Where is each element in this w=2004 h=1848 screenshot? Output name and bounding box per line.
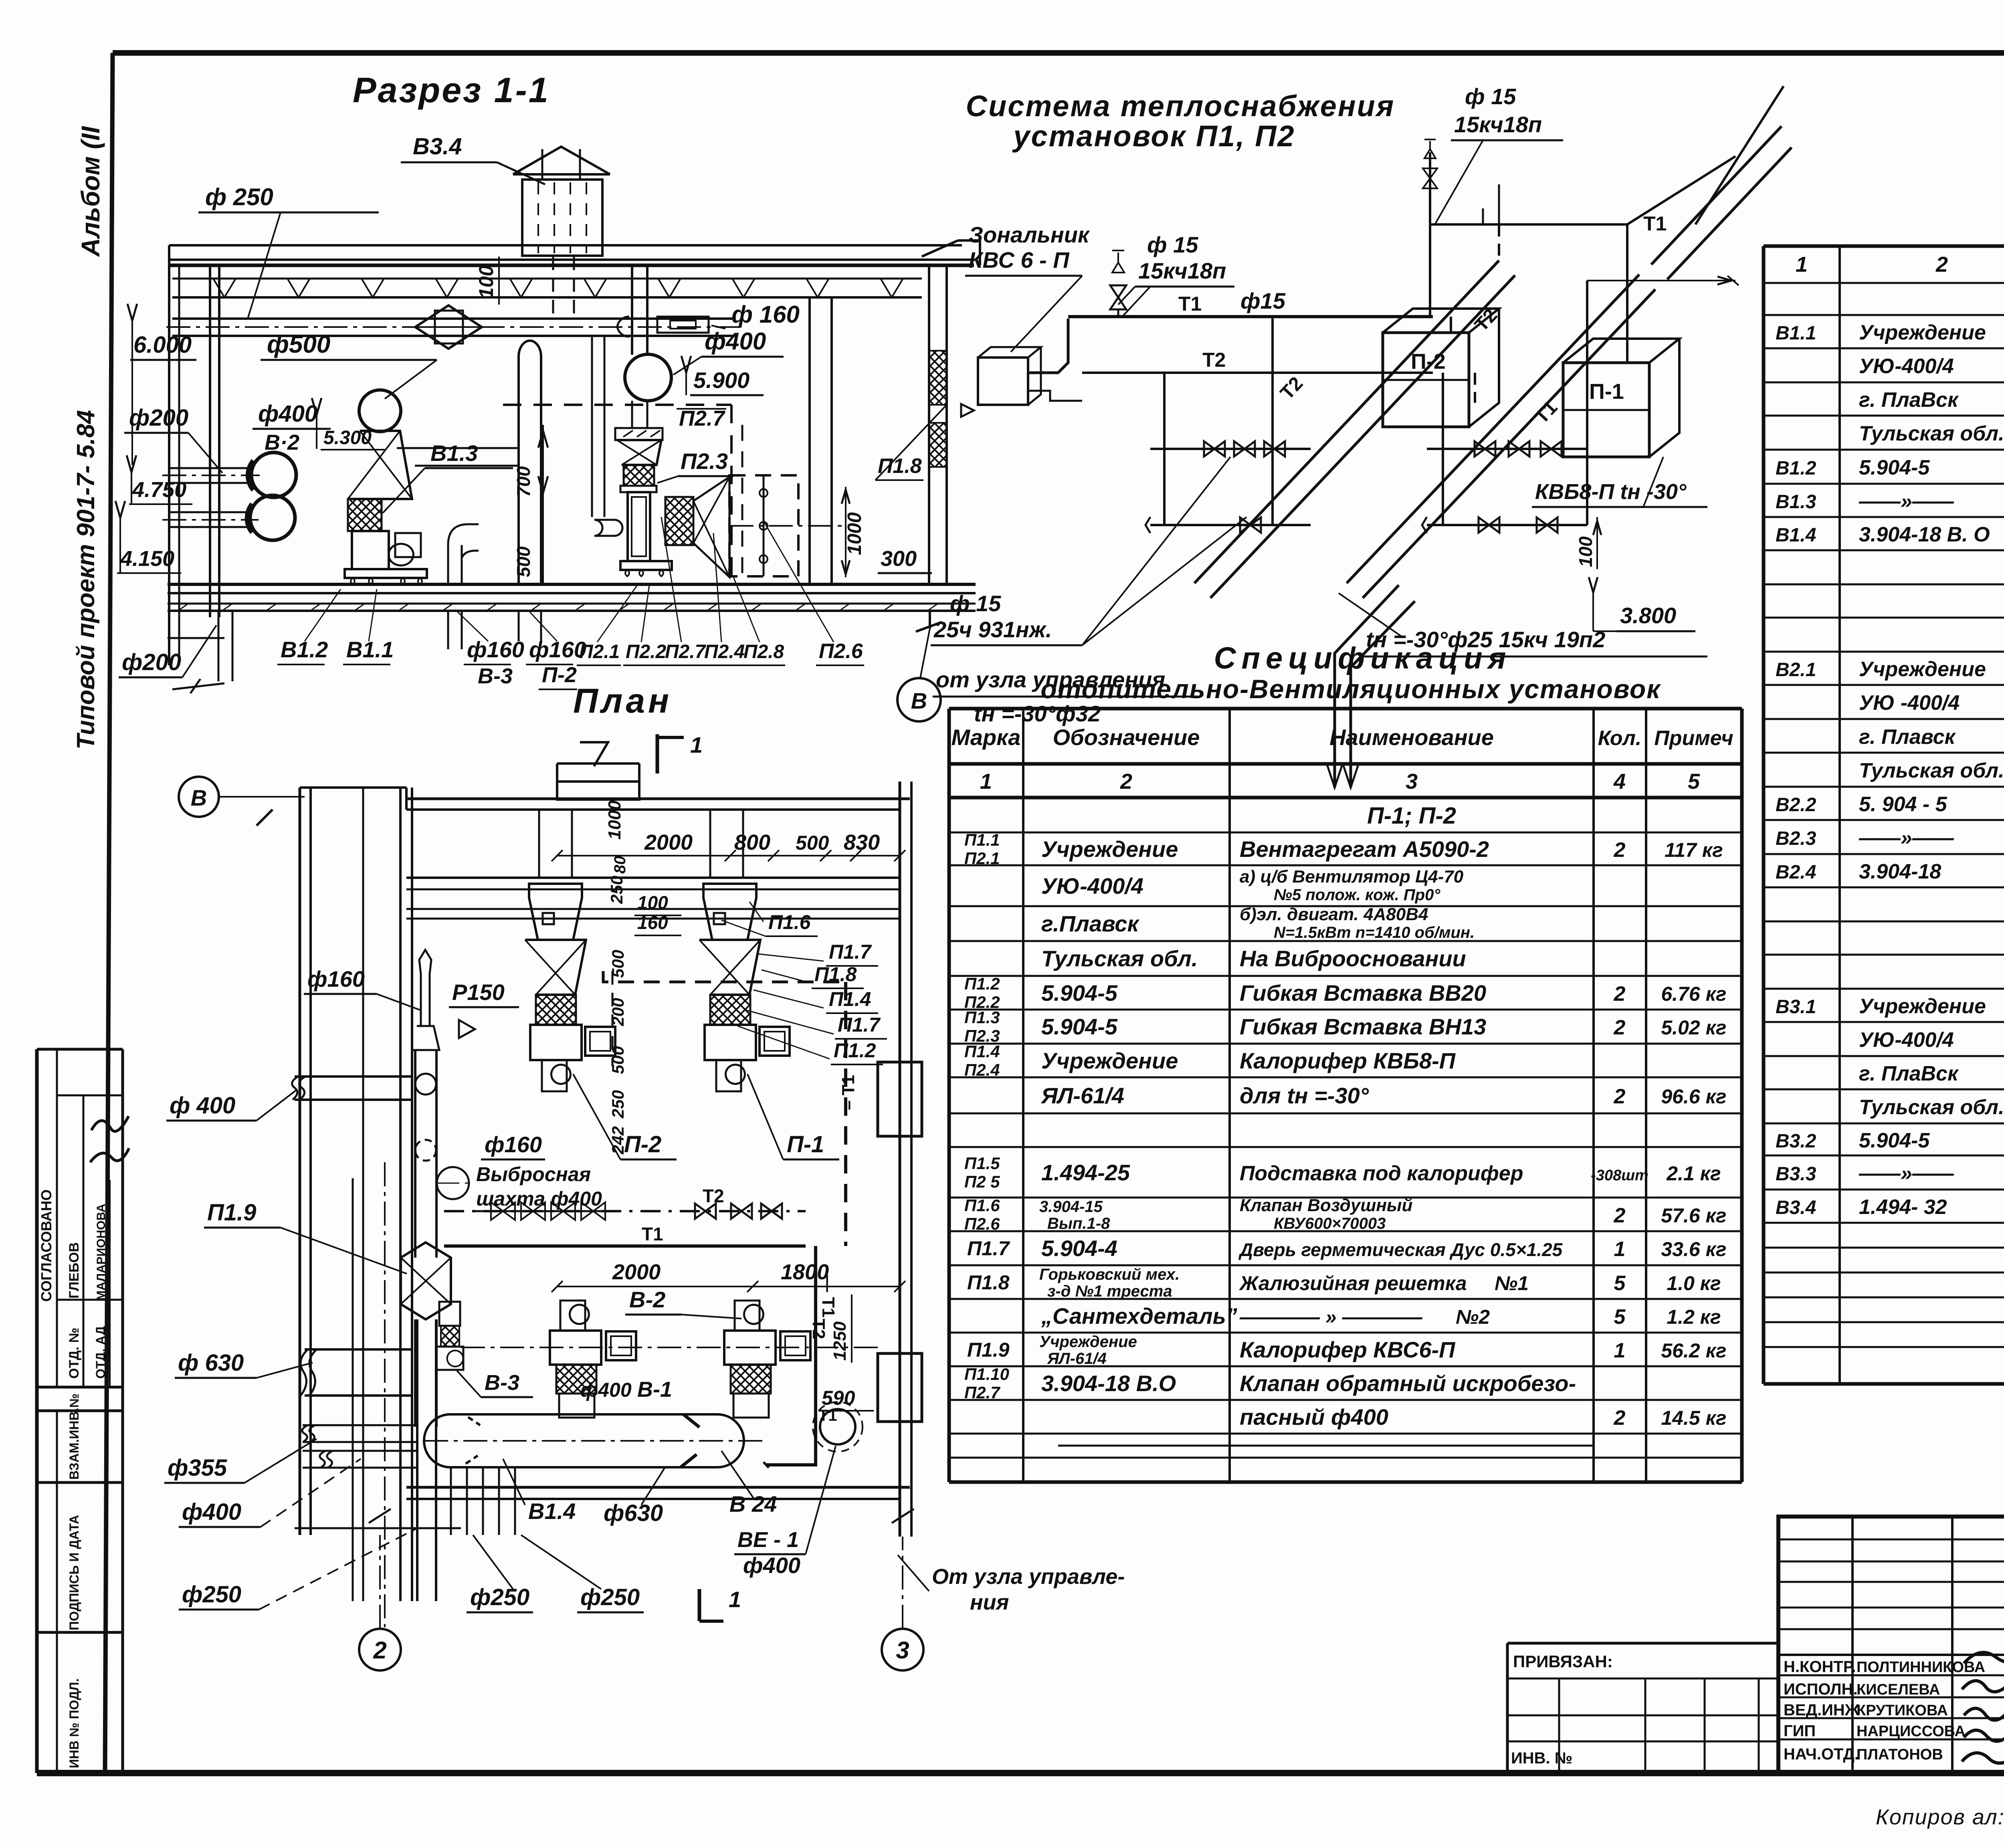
svg-text:1: 1	[690, 732, 703, 757]
svg-text:В3.4: В3.4	[413, 133, 462, 160]
svg-text:Тульская обл.: Тульская обл.	[1859, 759, 2004, 782]
svg-text:В: В	[191, 785, 207, 810]
svg-text:П1.3: П1.3	[964, 1008, 1000, 1027]
svg-text:5.904-5: 5.904-5	[1859, 456, 1930, 479]
svg-text:П2.1: П2.1	[964, 849, 1000, 868]
svg-text:П2.4: П2.4	[964, 1060, 1000, 1079]
svg-text:Горьковский мех.: Горьковский мех.	[1039, 1266, 1180, 1283]
roof slab lines	[169, 240, 980, 297]
svg-text:500: 500	[608, 1046, 627, 1074]
svg-text:300: 300	[881, 547, 917, 571]
svg-text:Калорифер КВБ8-П: Калорифер КВБ8-П	[1240, 1048, 1456, 1073]
scheme bottom manifold right	[1422, 517, 1587, 533]
svg-text:5: 5	[1614, 1272, 1626, 1295]
svg-text:Примеч: Примеч	[1654, 727, 1733, 750]
svg-text:700: 700	[513, 466, 534, 497]
circled axis 3	[882, 1629, 923, 1670]
svg-text:ф400: ф400	[705, 328, 766, 355]
svg-text:ф 160: ф 160	[731, 301, 800, 328]
svg-text:УЮ-400/4: УЮ-400/4	[1859, 1028, 1954, 1052]
svg-text:Тульская обл.: Тульская обл.	[1859, 422, 2004, 445]
svg-text:В-3: В-3	[485, 1371, 519, 1395]
svg-text:а) ц/б Вентилятор Ц4-70: а) ц/б Вентилятор Ц4-70	[1240, 867, 1464, 887]
label 1000 rotated dim	[845, 487, 846, 577]
svg-text:П-2: П-2	[542, 663, 577, 687]
svg-text:25ч 931нж.: 25ч 931нж.	[933, 617, 1052, 642]
svg-text:Т2: Т2	[809, 1319, 828, 1339]
svg-text:П2.4: П2.4	[704, 641, 745, 662]
svg-text:Т2: Т2	[1202, 349, 1226, 371]
svg-text:В1.2: В1.2	[281, 637, 328, 662]
scheme axis dim line right	[1587, 280, 1735, 281]
svg-text:1: 1	[729, 1587, 741, 1612]
svg-text:от узла управления: от узла управления	[936, 667, 1165, 692]
svg-text:Т1: Т1	[818, 1407, 837, 1424]
central spec table grid	[949, 709, 1742, 1482]
svg-text:500: 500	[513, 546, 534, 577]
svg-text:В1.2: В1.2	[1776, 458, 1816, 479]
svg-text:„Сантехдеталь”: „Сантехдеталь”	[1041, 1303, 1237, 1329]
section cut flag 1 bottom	[698, 1589, 701, 1621]
svg-text:ния: ния	[970, 1590, 1009, 1614]
svg-text:57.6 кг: 57.6 кг	[1661, 1204, 1726, 1227]
svg-text:П1.7: П1.7	[967, 1237, 1010, 1260]
svg-text:КВС 6 - П: КВС 6 - П	[969, 247, 1070, 273]
svg-text:П2.6: П2.6	[819, 640, 863, 663]
Ф200 below floor pipes	[218, 611, 220, 681]
svg-text:з-д №1 треста: з-д №1 треста	[1047, 1282, 1172, 1300]
svg-text:П2.7: П2.7	[964, 1383, 1000, 1402]
svg-text:ф 630: ф 630	[178, 1350, 244, 1376]
scheme riser top pipes	[1483, 184, 1499, 224]
svg-text:Клапан Воздушный: Клапан Воздушный	[1240, 1196, 1413, 1215]
roof shaft opening rect	[557, 782, 639, 800]
svg-text:4.150: 4.150	[120, 547, 174, 571]
svg-text:Учреждение: Учреждение	[1041, 836, 1178, 862]
Ф160 nozzle duct	[617, 317, 725, 337]
svg-text:ф200: ф200	[122, 649, 181, 675]
svg-text:П-1; П-2: П-1; П-2	[1367, 803, 1456, 829]
scheme drop to control node	[1327, 585, 1415, 788]
svg-text:1.2 кг: 1.2 кг	[1667, 1306, 1721, 1328]
svg-text:КРУТИКОВА: КРУТИКОВА	[1857, 1702, 1948, 1719]
flame arrester diamond on duct	[415, 305, 482, 349]
flexible insert В1.3 crosshatch	[348, 499, 382, 531]
svg-text:2: 2	[1935, 252, 1948, 277]
svg-text:П1.8: П1.8	[967, 1271, 1010, 1294]
svg-text:ИСПОЛН.: ИСПОЛН.	[1784, 1680, 1858, 1698]
svg-text:П1.9: П1.9	[967, 1339, 1010, 1361]
lower wall band below floor	[168, 637, 224, 639]
П-2 exhaust riser with cap	[519, 341, 541, 641]
heat pipes T to bottom right	[764, 1246, 838, 1468]
svg-text:П2.1: П2.1	[579, 641, 620, 662]
svg-text:Обозначение: Обозначение	[1053, 725, 1200, 750]
exhaust umbrella В3.4 chimney	[513, 147, 610, 256]
plan top wall	[406, 798, 910, 800]
svg-text:1.0 кг: 1.0 кг	[1667, 1272, 1721, 1295]
svg-text:П1.1: П1.1	[964, 830, 1000, 849]
plan dim row 2000 1800	[557, 1286, 900, 1287]
В-2 fan circles	[251, 452, 296, 497]
svg-text:Марка: Марка	[951, 725, 1021, 750]
vertical duct to chimney	[552, 256, 554, 319]
svg-text:3: 3	[1406, 769, 1418, 794]
svg-text:В2.3: В2.3	[1776, 828, 1816, 849]
svg-text:ЯЛ-61/4: ЯЛ-61/4	[1040, 1083, 1124, 1108]
svg-text:Вентагрегат А5090-2: Вентагрегат А5090-2	[1240, 836, 1489, 862]
svg-text:В1.3: В1.3	[1776, 491, 1816, 513]
svg-text:5.904-4: 5.904-4	[1041, 1236, 1117, 1261]
svg-text:ЯЛ-61/4: ЯЛ-61/4	[1047, 1350, 1107, 1367]
svg-text:ф400: ф400	[182, 1499, 241, 1525]
svg-text:Кол.: Кол.	[1598, 727, 1642, 750]
pipe stubs bottom	[417, 1319, 515, 1601]
plan left wall	[299, 788, 301, 1535]
svg-text:В3.1: В3.1	[1776, 996, 1816, 1018]
svg-text:ПОДПИСЬ И ДАТА: ПОДПИСЬ И ДАТА	[67, 1515, 81, 1630]
cone below Ф500 circle	[348, 431, 412, 499]
svg-text:ф15: ф15	[1240, 288, 1286, 313]
diamond П1.9 heater in shaft	[401, 1242, 451, 1427]
svg-text:КИСЕЛЕВА: КИСЕЛЕВА	[1857, 1681, 1940, 1698]
svg-text:ф630: ф630	[604, 1500, 663, 1526]
zonal heater box	[978, 347, 1041, 405]
svg-text:Учреждение: Учреждение	[1041, 1048, 1178, 1073]
svg-text:Тульская обл.: Тульская обл.	[1859, 1096, 2004, 1119]
air valve П2.6 box	[729, 475, 844, 576]
privyazan box	[1507, 1643, 1778, 1773]
П2 fan Ф400 circle	[625, 354, 671, 401]
svg-text:П2.7: П2.7	[679, 406, 726, 430]
П-2 isometric box	[1383, 309, 1499, 427]
svg-text:ГЛЕБОВ: ГЛЕБОВ	[67, 1242, 82, 1299]
svg-text:250: 250	[608, 1090, 627, 1119]
left horizontal pipes Ф355 Ф400	[302, 1425, 417, 1468]
diffuser cone to П2.6 box	[693, 477, 729, 577]
svg-text:3.904-18: 3.904-18	[1859, 860, 1941, 883]
plan rotated dim column	[605, 800, 681, 1155]
cone and X brace П2 train	[617, 440, 661, 465]
drawing border frame	[113, 50, 2004, 56]
svg-text:П1.4: П1.4	[964, 1042, 1000, 1061]
svg-text:5.02 кг: 5.02 кг	[1661, 1016, 1726, 1039]
svg-text:П1.8: П1.8	[814, 963, 857, 986]
fan unit В1.1 body	[345, 531, 427, 584]
dashed duct П2.8 drop	[730, 405, 733, 577]
fan unit П2.1 body	[594, 486, 672, 576]
svg-text:6.000: 6.000	[133, 332, 192, 358]
svg-text:П1.9: П1.9	[207, 1200, 256, 1226]
svg-text:2: 2	[1614, 1204, 1626, 1227]
svg-text:5.900: 5.900	[693, 368, 749, 393]
svg-text:5.904-5: 5.904-5	[1859, 1129, 1930, 1152]
svg-text:П2.8: П2.8	[743, 641, 784, 662]
svg-text:В2.4: В2.4	[1776, 862, 1816, 883]
svg-text:ф 400: ф 400	[170, 1093, 235, 1119]
tall columns right of П2.6	[808, 297, 811, 584]
chimney height dim 100	[498, 256, 500, 305]
svg-text:В-1: В-1	[637, 1377, 672, 1402]
svg-text:Т1: Т1	[642, 1224, 663, 1244]
axis break marks bottom	[369, 1509, 391, 1523]
svg-text:1.494-25: 1.494-25	[1041, 1160, 1130, 1185]
svg-text:УЮ-400/4: УЮ-400/4	[1859, 355, 1954, 378]
svg-text:В1.3: В1.3	[430, 440, 478, 466]
svg-text:Вып.1-8: Вып.1-8	[1047, 1215, 1110, 1232]
svg-text:б)эл. двигат. 4А80В4: б)эл. двигат. 4А80В4	[1240, 905, 1428, 924]
svg-text:Клапан обратный искробезо-: Клапан обратный искробезо-	[1240, 1371, 1576, 1396]
svg-text:ф355: ф355	[168, 1455, 227, 1481]
svg-text:ф250: ф250	[580, 1584, 640, 1610]
svg-text:КВБ8-П tн -30°: КВБ8-П tн -30°	[1535, 480, 1687, 504]
svg-text:Копиров ал: Боброва: Копиров ал: Боброва	[1876, 1805, 2004, 1829]
svg-text:На Виброосновании: На Виброосновании	[1240, 946, 1466, 971]
fire valve П2.7	[615, 428, 663, 440]
scheme lower valve row 2	[1427, 441, 1587, 456]
fan В1.1 train - Ф500 circle	[359, 390, 401, 432]
svg-text:П-1: П-1	[787, 1131, 824, 1157]
section cut flag 1 top	[656, 734, 659, 774]
svg-text:Дверь герметическая Дус 0.5×1.: Дверь герметическая Дус 0.5×1.25	[1238, 1239, 1563, 1260]
supply unit П-2 plan	[525, 884, 615, 1091]
svg-text:В1.1: В1.1	[346, 637, 394, 662]
svg-text:56.2 кг: 56.2 кг	[1661, 1339, 1726, 1362]
svg-text:Р150: Р150	[452, 980, 505, 1005]
svg-text:Жалюзийная решетка №1: Жалюзийная решетка №1	[1238, 1272, 1529, 1295]
exhaust unit В-1 plan	[724, 1301, 810, 1418]
plan bottom wall	[406, 1486, 910, 1489]
svg-text:5.300: 5.300	[323, 427, 372, 448]
axis 2 dash-dot line	[384, 1162, 386, 1627]
left valve stack	[1110, 250, 1126, 317]
svg-text:ф 15: ф 15	[1465, 84, 1516, 109]
svg-text:2000: 2000	[612, 1260, 661, 1284]
svg-text:ПЛАТОНОВ: ПЛАТОНОВ	[1857, 1746, 1943, 1763]
svg-text:1000: 1000	[844, 512, 865, 555]
svg-text:5.904-5: 5.904-5	[1041, 980, 1118, 1006]
svg-text:500: 500	[796, 832, 829, 854]
svg-text:ф500: ф500	[267, 331, 330, 358]
svg-text:От узла управле-: От узла управле-	[932, 1565, 1125, 1589]
svg-text:ГИП: ГИП	[1784, 1722, 1816, 1740]
svg-text:100: 100	[475, 265, 497, 299]
П-1 isometric box	[1563, 339, 1679, 457]
svg-text:100: 100	[1575, 536, 1596, 567]
svg-text:3.904-18 В.О: 3.904-18 В.О	[1041, 1371, 1176, 1396]
svg-text:Гибкая Вставка ВВ20: Гибкая Вставка ВВ20	[1240, 980, 1486, 1006]
svg-text:5. 904 - 5: 5. 904 - 5	[1859, 793, 1947, 816]
svg-text:П1.8: П1.8	[878, 454, 922, 478]
svg-text:tн =-30°ф32: tн =-30°ф32	[974, 701, 1101, 726]
circled axis В left	[179, 777, 219, 817]
svg-text:В1.4: В1.4	[528, 1499, 576, 1524]
svg-text:2: 2	[1614, 1406, 1626, 1430]
svg-text:В: В	[911, 688, 927, 713]
svg-text:установок П1, П2: установок П1, П2	[1012, 119, 1295, 153]
svg-text:Система теплоснабжения: Система теплоснабжения	[966, 89, 1395, 123]
svg-text:1: 1	[1796, 252, 1808, 277]
svg-text:Выбросная: Выбросная	[476, 1163, 591, 1186]
svg-text:33.6 кг: 33.6 кг	[1661, 1238, 1726, 1260]
svg-text:№5 полож. кож. Пр0°: №5 полож. кож. Пр0°	[1274, 886, 1440, 904]
svg-text:ПРИВЯЗАН:: ПРИВЯЗАН:	[1513, 1652, 1613, 1671]
scheme bottom manifold left	[1145, 517, 1311, 533]
svg-text:2: 2	[1614, 982, 1626, 1006]
svg-text:Гибкая Вставка ВН13: Гибкая Вставка ВН13	[1240, 1014, 1486, 1039]
svg-text:2: 2	[1120, 769, 1132, 794]
svg-text:tн =-30°ф25 15кч 19п2: tн =-30°ф25 15кч 19п2	[1366, 627, 1605, 652]
title block outer frame	[1778, 1517, 2004, 1773]
В-3 drain riser	[448, 524, 479, 649]
svg-text:1250: 1250	[830, 1321, 850, 1361]
circled axis 2	[359, 1629, 401, 1670]
plan upper duct band	[406, 877, 900, 879]
svg-text:5: 5	[1614, 1305, 1626, 1329]
title block role names	[1784, 1658, 1985, 1763]
duct hangers	[543, 913, 554, 924]
svg-text:96.6 кг: 96.6 кг	[1661, 1085, 1726, 1108]
svg-text:г. Плавск: г. Плавск	[1859, 725, 1956, 749]
svg-text:П2.2: П2.2	[626, 641, 667, 662]
svg-text:ОТД. АД: ОТД. АД	[93, 1326, 108, 1379]
svg-text:3.904-18 В. О: 3.904-18 В. О	[1859, 523, 1990, 546]
svg-text:пасный ф400: пасный ф400	[1240, 1404, 1388, 1430]
svg-text:1.494- 32: 1.494- 32	[1859, 1196, 1947, 1219]
wall axis left	[168, 245, 170, 665]
svg-text:г.Плавск: г.Плавск	[1041, 911, 1140, 936]
axis tick bottom left	[172, 683, 224, 689]
dashed duct route T1 around П units	[603, 971, 858, 1246]
svg-text:В-3: В-3	[478, 664, 513, 688]
svg-text:2: 2	[1614, 1085, 1626, 1108]
svg-text:В3.4: В3.4	[1776, 1197, 1816, 1218]
plan centerline through В units	[461, 1347, 882, 1348]
top right valve stack	[1423, 139, 1437, 317]
svg-text:250: 250	[607, 876, 626, 904]
labels П1.6 П1.7 П1.8 П1.4 П1.7 П1.2 with leaders	[721, 902, 887, 1064]
svg-text:– Т1: – Т1	[838, 1075, 858, 1110]
svg-text:Тульская обл.: Тульская обл.	[1041, 946, 1198, 971]
svg-text:15кч18п: 15кч18п	[1454, 112, 1542, 137]
svg-text:ф200: ф200	[129, 405, 188, 431]
plan dim row top 2000 800 500 830	[552, 830, 905, 861]
svg-text:П2.6: П2.6	[964, 1214, 1000, 1233]
exhaust unit В-2 plan	[550, 1301, 636, 1418]
svg-text:100: 100	[637, 892, 668, 913]
fan П2.1 train vertical duct from roof	[631, 265, 633, 355]
svg-text:УЮ-400/4: УЮ-400/4	[1041, 873, 1143, 899]
central table body rows	[964, 830, 1727, 1430]
svg-text:для tн =-30°: для tн =-30°	[1240, 1083, 1369, 1108]
svg-text:ф160: ф160	[485, 1132, 542, 1157]
svg-text:В·2: В·2	[265, 430, 299, 454]
second riser П2.2 duct	[591, 336, 593, 517]
svg-text:Т1: Т1	[1643, 212, 1667, 235]
svg-text:г. ПлаВск: г. ПлаВск	[1859, 1062, 1959, 1085]
svg-text:МАЛАРИОНОВА: МАЛАРИОНОВА	[95, 1204, 108, 1301]
svg-text:ф400: ф400	[580, 1379, 632, 1401]
svg-text:П1.7: П1.7	[829, 941, 872, 963]
svg-text:5.904-5: 5.904-5	[1041, 1014, 1118, 1039]
svg-text:П-2: П-2	[624, 1131, 661, 1157]
svg-text:КВУ600×70003: КВУ600×70003	[1274, 1215, 1386, 1232]
right wall of section with louvers	[929, 265, 947, 584]
wall axis marker triangle right	[961, 404, 974, 417]
T1 heat line	[444, 1244, 806, 1248]
svg-text:ф160: ф160	[307, 966, 365, 992]
scheme T1 main horizontal	[1068, 315, 1433, 318]
left margin approval stamp table	[37, 1048, 123, 1051]
svg-text:Калорифер КВС6-П: Калорифер КВС6-П	[1240, 1337, 1456, 1362]
signature squiggle 1	[90, 1148, 129, 1162]
svg-text:2000: 2000	[644, 830, 693, 854]
svg-text:В3.3: В3.3	[1776, 1163, 1816, 1185]
svg-text:——»——: ——»——	[1859, 826, 1954, 850]
svg-text:ф400: ф400	[743, 1553, 800, 1578]
right wall pier 2	[878, 1353, 922, 1422]
svg-text:Учреждение: Учреждение	[1859, 658, 1986, 681]
svg-text:В 24: В 24	[729, 1491, 777, 1517]
circled axis В right	[897, 678, 941, 721]
bell riser lines П-2	[538, 810, 540, 878]
title block small revision rows	[1778, 1517, 2004, 1773]
svg-text:ф250: ф250	[470, 1584, 529, 1610]
svg-text:— Т1: — Т1	[818, 1274, 838, 1318]
svg-text:ВЗАМ.ИНВ.№: ВЗАМ.ИНВ.№	[67, 1394, 81, 1480]
svg-text:НАРЦИССОВА: НАРЦИССОВА	[1857, 1723, 1966, 1740]
svg-text:План: План	[573, 682, 672, 720]
svg-text:НАЧ.ОТД.: НАЧ.ОТД.	[1784, 1745, 1859, 1763]
svg-text:3.800: 3.800	[1620, 603, 1676, 628]
svg-text:Учреждение: Учреждение	[1039, 1333, 1137, 1351]
svg-text:Учреждение: Учреждение	[1859, 321, 1986, 344]
scheme T2 horizontal	[1082, 372, 1433, 374]
svg-text:——»——: ——»——	[1859, 1162, 1954, 1185]
left horizontal pipes Ф400	[292, 1076, 413, 1100]
rotated dim 1250	[851, 1295, 853, 1363]
plan right wall	[899, 782, 901, 1537]
svg-text:Учреждение: Учреждение	[1859, 995, 1986, 1018]
svg-text:Разрез 1-1: Разрез 1-1	[353, 70, 550, 110]
right spec table grid	[1764, 246, 2004, 1384]
dashed level line 5.900	[503, 404, 731, 406]
svg-text:2.1 кг: 2.1 кг	[1666, 1162, 1721, 1185]
vertical duct circle to valve	[631, 401, 633, 428]
svg-text:П1.2: П1.2	[964, 974, 1000, 993]
svg-text:3: 3	[896, 1637, 909, 1664]
svg-text:80: 80	[611, 856, 629, 874]
svg-text:1: 1	[980, 769, 992, 794]
svg-text:Т2: Т2	[703, 1186, 724, 1206]
scheme isometric T2 diagonals	[1194, 86, 1792, 598]
svg-text:П1.2: П1.2	[834, 1039, 876, 1062]
svg-text:П2.3: П2.3	[681, 448, 728, 474]
dim 100 rotated right	[1596, 517, 1598, 569]
svg-text:В1.4: В1.4	[1776, 525, 1816, 546]
svg-text:ф160: ф160	[529, 637, 586, 662]
svg-text:П-1: П-1	[1589, 380, 1624, 404]
svg-text:ф 15: ф 15	[950, 591, 1001, 616]
svg-text:1000: 1000	[605, 800, 624, 840]
svg-text:2: 2	[1614, 838, 1626, 862]
svg-text:П1.6: П1.6	[964, 1196, 1000, 1215]
svg-text:В2.2: В2.2	[1776, 794, 1816, 816]
В-3 small unit plan	[436, 1302, 463, 1370]
scheme piping left connection	[1028, 319, 1082, 401]
svg-text:В3.2: В3.2	[1776, 1131, 1816, 1152]
svg-text:500: 500	[608, 950, 627, 978]
